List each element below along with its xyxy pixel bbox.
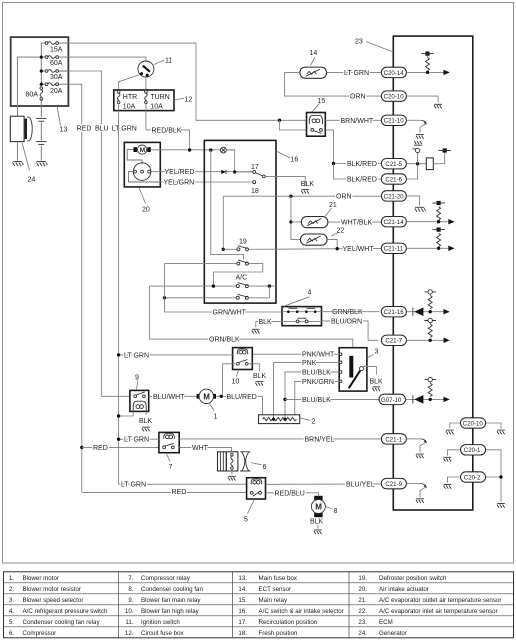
svg-text:19.: 19. — [358, 575, 367, 582]
svg-text:A/C switch & air intake select: A/C switch & air intake selector — [259, 608, 344, 615]
wire: LT GRN bus from HTR fuse — [119, 103, 247, 484]
svg-text:10.: 10. — [125, 608, 134, 615]
legend entry 1 — [9, 575, 59, 582]
node: high relay tap — [220, 395, 223, 398]
label 20 — [139, 188, 150, 214]
svg-text:A/C refrigerant pressure switc: A/C refrigerant pressure switch — [23, 608, 108, 615]
svg-text:C21-10: C21-10 — [384, 118, 405, 125]
wire: ignition to TURN fuse — [145, 77, 147, 91]
recirculation switch 17 — [251, 164, 265, 178]
battery — [36, 99, 47, 166]
svg-text:BRN/WHT: BRN/WHT — [341, 118, 374, 125]
wire: BLU/WHT to blower motor — [149, 395, 199, 397]
legend entry 8 — [128, 586, 203, 593]
svg-text:G07-10: G07-10 — [381, 397, 402, 404]
label 4 — [284, 290, 312, 307]
connector C21-5 — [381, 159, 406, 169]
svg-text:12: 12 — [185, 96, 193, 103]
svg-text:BLK/RED: BLK/RED — [347, 177, 377, 184]
generator 24 — [10, 116, 32, 166]
ground: compressor — [228, 471, 236, 481]
svg-text:Fresh position: Fresh position — [259, 630, 298, 637]
circuit fuse box 12 — [114, 90, 174, 111]
svg-text:10A: 10A — [123, 103, 136, 110]
svg-text:Blower motor resistor: Blower motor resistor — [23, 586, 81, 593]
ECM circuit at C21-5/C21-6 — [406, 141, 451, 170]
compressor 6 — [218, 452, 251, 471]
node: relay 15 input branch — [278, 119, 307, 130]
connector C21-10 — [381, 115, 406, 125]
svg-text:BLU/ORN: BLU/ORN — [331, 318, 362, 325]
svg-text:LT GRN: LT GRN — [344, 70, 369, 77]
svg-text:17: 17 — [251, 164, 259, 171]
wire: A/C lower left to GRN/WHT net — [165, 297, 237, 299]
fuse 20A — [45, 83, 63, 95]
blower fan high relay 10 — [233, 348, 253, 370]
fuse 30A — [45, 70, 63, 81]
wire: A/C lower right — [248, 297, 269, 299]
svg-text:Main relay: Main relay — [259, 597, 288, 604]
wire: WHT to compressor — [179, 447, 231, 451]
svg-text:BLU: BLU — [95, 125, 109, 132]
svg-text:6: 6 — [263, 464, 267, 471]
svg-text:Defroster position switch: Defroster position switch — [379, 575, 447, 582]
svg-text:LT GRN: LT GRN — [124, 352, 149, 359]
wire: GRN/WHT run to pressure switch — [165, 264, 283, 312]
wire: 15A feed to main relay — [68, 43, 306, 120]
svg-text:Blower fan main relay: Blower fan main relay — [141, 597, 201, 604]
blower motor resistor 2 — [259, 415, 300, 424]
svg-text:A/C evaporator inlet air tempe: A/C evaporator inlet air temperature sen… — [379, 608, 498, 615]
svg-text:C21-1: C21-1 — [385, 436, 402, 443]
svg-text:PNK: PNK — [302, 360, 317, 367]
legend entry 5 — [9, 619, 101, 626]
node: YEL/RED junction — [233, 170, 236, 173]
svg-text:RED: RED — [77, 125, 92, 132]
svg-text:1: 1 — [214, 413, 218, 420]
label 23 — [355, 39, 392, 52]
label 3 — [368, 349, 379, 358]
node: LT GRN tap relay 7 — [117, 438, 120, 441]
svg-text:GRN/BLK: GRN/BLK — [332, 309, 363, 316]
ECM input at G07-10 — [406, 377, 450, 403]
A/C refrigerant pressure switch 4 — [256, 307, 322, 326]
svg-text:C21-5: C21-5 — [385, 161, 402, 168]
legend entry 6 — [9, 630, 56, 637]
svg-text:C21-9: C21-9 — [385, 481, 402, 488]
svg-text:Condenser cooling fan relay: Condenser cooling fan relay — [23, 619, 101, 626]
connector C21-6 — [381, 174, 406, 184]
svg-text:BLU/YEL: BLU/YEL — [346, 481, 375, 488]
node: A/C left — [212, 284, 215, 287]
wire: relay 9 coil to BLK ground — [139, 411, 153, 431]
svg-text:C21-11: C21-11 — [384, 246, 404, 253]
label 12 — [174, 96, 192, 103]
legend entry 21 — [358, 597, 501, 604]
legend entry 18 — [238, 630, 298, 637]
ECM input at C21-16 — [406, 290, 449, 316]
svg-text:BLK: BLK — [139, 418, 153, 425]
svg-text:BLK: BLK — [253, 373, 267, 380]
wire: 30A BLU bus — [68, 71, 129, 396]
node: BLK/RED branch — [332, 162, 382, 179]
svg-text:Main fuse box: Main fuse box — [259, 575, 298, 582]
svg-text:8.: 8. — [128, 586, 133, 593]
junction dots in fuse box — [40, 56, 43, 59]
blower fan main relay 9 — [130, 390, 149, 411]
ignition switch 11 — [138, 61, 154, 77]
svg-text:PNK/GRN: PNK/GRN — [302, 379, 334, 386]
svg-text:5: 5 — [244, 516, 248, 523]
svg-text:LT GRN: LT GRN — [121, 482, 146, 489]
wire: PNK/GRN — [295, 381, 339, 415]
svg-text:C21-14: C21-14 — [384, 219, 405, 226]
svg-text:YEL/WHT: YEL/WHT — [343, 246, 375, 253]
wire: defroster switch to YEL/WHT line — [249, 247, 382, 250]
label 2 — [300, 418, 316, 426]
main fuse box 13 — [11, 37, 69, 106]
legend table lines — [4, 572, 514, 638]
svg-text:22: 22 — [337, 227, 345, 234]
legend entry 9 — [128, 597, 201, 604]
wire: RED/BLK from TURN fuse — [146, 103, 190, 150]
fuse 15A — [45, 42, 63, 54]
svg-text:RED/BLU: RED/BLU — [275, 490, 305, 497]
svg-text:3.: 3. — [9, 597, 14, 604]
wire: relay 9 coil to LT GRN bus — [119, 411, 134, 416]
label 10 — [232, 370, 240, 386]
wire: ignition to HTR fuse — [119, 75, 140, 91]
svg-text:LT GRN: LT GRN — [124, 437, 149, 444]
svg-text:M: M — [315, 503, 322, 512]
label 7 — [166, 453, 173, 471]
label 15 — [312, 98, 325, 112]
label 14 — [310, 50, 318, 65]
svg-text:WHT/BLK: WHT/BLK — [341, 219, 372, 226]
ECT sensor 14 — [285, 67, 382, 96]
svg-text:23: 23 — [355, 39, 363, 46]
label 24 — [22, 143, 35, 184]
wire: 60A to ignition switch — [68, 57, 146, 61]
svg-text:30A: 30A — [50, 74, 63, 81]
svg-text:BLU/WHT: BLU/WHT — [153, 394, 185, 401]
wire: selector switch left to GRN/WHT bus — [165, 263, 237, 265]
svg-text:RED: RED — [93, 445, 108, 452]
svg-text:24.: 24. — [358, 630, 367, 637]
ECM ground at C20-10 — [406, 96, 442, 108]
ECM power connector C20-2 — [444, 472, 505, 508]
svg-text:BLK: BLK — [259, 319, 273, 326]
svg-text:C20-1: C20-1 — [464, 447, 481, 454]
compressor relay 7 — [159, 432, 179, 452]
node: RED bus to compressor relay — [80, 446, 159, 449]
svg-text:YEL/GRN: YEL/GRN — [164, 180, 195, 187]
wire: 60A left branch to generator — [17, 57, 41, 116]
legend entry 17 — [238, 619, 317, 626]
legend entry 16 — [238, 608, 343, 615]
svg-text:Ignition switch: Ignition switch — [141, 619, 180, 626]
label 11 — [154, 57, 172, 64]
condenser cooling fan relay 5 — [247, 478, 266, 499]
svg-text:Compressor relay: Compressor relay — [141, 575, 191, 582]
svg-text:GRN/WHT: GRN/WHT — [213, 310, 247, 317]
legend entry 15 — [238, 597, 288, 604]
wire: ORN source line — [223, 195, 381, 197]
node: LT GRN tap relay 10 — [117, 353, 120, 356]
legend entry 12 — [125, 630, 185, 637]
ground BLK for switch 17 — [301, 181, 315, 194]
svg-text:Blower fan high relay: Blower fan high relay — [141, 608, 200, 615]
ground: condenser fan BLK — [310, 518, 324, 534]
svg-text:4.: 4. — [9, 608, 14, 615]
svg-text:11.: 11. — [125, 619, 133, 626]
actuator selector — [127, 150, 160, 182]
svg-text:ORN: ORN — [350, 94, 366, 101]
svg-text:M: M — [140, 147, 145, 154]
A/C switch lower pole — [236, 294, 248, 299]
svg-text:C20-10: C20-10 — [384, 94, 405, 101]
svg-text:ECM: ECM — [379, 619, 393, 626]
blower speed selector 3 — [339, 348, 367, 391]
legend entry 20 — [358, 586, 428, 593]
svg-text:14.: 14. — [238, 586, 247, 593]
svg-text:Air intake actuator: Air intake actuator — [379, 586, 429, 593]
ECM link C21-6 — [406, 166, 417, 180]
legend entry 22 — [358, 608, 497, 615]
svg-text:10: 10 — [232, 379, 240, 386]
wire to defroster switch — [223, 248, 237, 250]
svg-text:Generator: Generator — [379, 630, 407, 637]
indicator lamp in panel — [209, 147, 235, 172]
svg-text:15.: 15. — [238, 597, 247, 604]
label 9 — [135, 374, 139, 390]
svg-text:9.: 9. — [128, 597, 133, 604]
svg-text:15: 15 — [318, 98, 326, 105]
svg-text:20A: 20A — [50, 88, 63, 95]
svg-text:18.: 18. — [238, 630, 247, 637]
svg-text:ORN: ORN — [336, 194, 352, 201]
air intake actuator 20 — [124, 142, 160, 187]
svg-text:BLU/BLK: BLU/BLK — [302, 397, 331, 404]
legend entry 7 — [128, 575, 190, 582]
fresh position contact 18 — [251, 181, 259, 195]
wire: lamp branch down to A/C switch — [211, 150, 244, 259]
svg-text:21.: 21. — [358, 597, 367, 604]
connector C21-9 — [381, 478, 406, 488]
main relay 15 — [307, 113, 326, 137]
blower motor 1 — [197, 389, 216, 403]
svg-text:9: 9 — [135, 374, 139, 381]
wire: high relay switch to motor node — [223, 364, 237, 395]
wire: main relay coil out BRN/WHT — [325, 119, 381, 121]
ECM driver at C21-1 — [406, 439, 427, 458]
wire: high relay switch to BLK ground — [248, 364, 266, 386]
svg-text:15A: 15A — [50, 46, 63, 53]
svg-text:BLK/RED: BLK/RED — [347, 161, 377, 168]
label 16 — [277, 152, 298, 164]
label 6 — [251, 463, 267, 471]
svg-text:16: 16 — [291, 157, 299, 164]
fuse HTR 10A — [117, 90, 137, 110]
connector C20-10 — [381, 91, 406, 101]
svg-text:80A: 80A — [26, 92, 39, 99]
svg-text:3: 3 — [375, 349, 379, 356]
svg-text:7: 7 — [169, 464, 173, 471]
legend entry 23 — [358, 619, 392, 626]
wire: 20A RED bus — [68, 84, 81, 492]
ECM input at C21-7 — [406, 318, 449, 343]
svg-text:14: 14 — [310, 50, 318, 57]
motor M in actuator — [133, 145, 150, 154]
wire: BLU/YEL coil to ECM — [266, 483, 382, 485]
wire: link to recirculation switch — [236, 171, 252, 173]
svg-text:HTR: HTR — [123, 94, 137, 101]
svg-text:Compressor: Compressor — [23, 630, 57, 637]
svg-text:Circuit fuse box: Circuit fuse box — [141, 630, 185, 637]
node: BLU/BLK to ECM tap — [283, 398, 379, 401]
svg-text:2.: 2. — [9, 586, 14, 593]
svg-text:21: 21 — [329, 202, 337, 209]
svg-text:C20-14: C20-14 — [384, 70, 405, 77]
condenser cooling fan 8 — [311, 496, 325, 517]
wire: YEL/RED to A/C panel — [151, 171, 253, 173]
node: outlet sensor tap — [289, 220, 302, 223]
ECM driver at C21-9 — [406, 484, 427, 503]
svg-text:19: 19 — [239, 238, 247, 245]
wire: BLK to ground from pressure switch — [252, 319, 272, 334]
svg-text:C20-10: C20-10 — [463, 420, 484, 427]
A/C evaporator inlet air temperature sensor 22 — [301, 234, 338, 249]
wire: selector BLK ground — [362, 367, 384, 392]
wire: BLU/ORN to ECM — [322, 321, 379, 340]
legend entry 11 — [125, 619, 180, 626]
svg-text:8: 8 — [334, 508, 338, 515]
fuse TURN 10A — [145, 90, 170, 110]
svg-text:11: 11 — [165, 57, 172, 64]
label 13 — [57, 106, 67, 133]
connector C21-1 — [381, 434, 406, 444]
wire: fuse box internal bus — [41, 43, 68, 88]
svg-text:C21-20: C21-20 — [384, 193, 405, 200]
svg-text:1.: 1. — [9, 575, 14, 582]
svg-text:C21-6: C21-6 — [385, 176, 402, 183]
svg-text:BLK: BLK — [370, 378, 384, 385]
legend entry 10 — [125, 608, 200, 615]
svg-text:2: 2 — [312, 418, 316, 425]
wire: main relay switch out to BLK/RED — [325, 130, 381, 164]
legend entry 19 — [358, 575, 447, 582]
wire: BLU/RED to resistor — [216, 396, 263, 415]
wire: BRN/YEL coil to ECM — [179, 438, 381, 440]
svg-text:Condenser cooling fan: Condenser cooling fan — [141, 586, 203, 593]
wire: selector switch S-path to A/C node — [213, 264, 262, 287]
svg-text:PNK/WHT: PNK/WHT — [302, 352, 335, 359]
svg-text:C21-7: C21-7 — [385, 338, 402, 345]
node: GRN/WHT tie — [163, 296, 166, 299]
wire: PNK/WHT — [252, 353, 339, 355]
wire: GRN/BLK to ECM — [322, 311, 380, 313]
legend table frame — [4, 572, 514, 638]
connector C21-16 — [381, 307, 406, 317]
ECM pullup at C21-11 — [406, 228, 454, 252]
svg-text:Recirculation position: Recirculation position — [259, 619, 318, 626]
svg-text:RED/BLK: RED/BLK — [152, 127, 182, 134]
wire: LT GRN to compressor relay coil — [119, 438, 159, 440]
legend entry 4 — [9, 608, 108, 615]
ECM 23 — [393, 36, 473, 510]
label 1 — [210, 404, 218, 421]
svg-text:RED: RED — [172, 489, 187, 496]
label 22 — [331, 227, 344, 236]
ECM power connector C20-10 right — [446, 418, 505, 435]
svg-text:ECT sensor: ECT sensor — [259, 586, 292, 593]
wire: actuator motor supply line — [151, 149, 235, 151]
defroster position switch 19 — [237, 238, 249, 251]
svg-text:60A: 60A — [50, 60, 63, 67]
wire: ORN down to defroster switch — [222, 196, 224, 249]
ECM driver at C21-10 — [406, 120, 427, 138]
node: RED/BLK junction — [188, 148, 191, 151]
label 5 — [244, 499, 255, 523]
node: A/C right tie — [268, 284, 271, 297]
connector C21-7 — [381, 335, 406, 345]
svg-text:10A: 10A — [150, 103, 163, 110]
label 21 — [326, 202, 337, 216]
legend entry 14 — [238, 586, 291, 593]
svg-text:M: M — [203, 392, 210, 401]
legend entry 13 — [238, 575, 298, 582]
svg-text:TURN: TURN — [150, 94, 169, 101]
svg-text:18: 18 — [251, 188, 259, 195]
node: defroster feed — [222, 248, 225, 251]
svg-text:16.: 16. — [238, 608, 247, 615]
svg-text:24: 24 — [28, 177, 36, 184]
svg-text:A/C evaporator outlet air temp: A/C evaporator outlet air temperature se… — [379, 597, 501, 604]
ECM pullup at C21-14 — [406, 201, 454, 225]
air intake selector switch — [237, 260, 249, 265]
connector C21-11 — [381, 243, 406, 253]
svg-text:Blower motor: Blower motor — [23, 575, 59, 582]
connector C21-14 — [381, 217, 406, 227]
svg-text:BLK: BLK — [301, 181, 315, 188]
wire: RED bottom run to relay 5 — [82, 491, 247, 493]
node: YEL/WHT junction — [336, 247, 339, 250]
svg-text:5.: 5. — [9, 619, 14, 626]
svg-text:Blower speed selector: Blower speed selector — [23, 597, 84, 604]
legend entry 3 — [9, 597, 84, 604]
legend entry 24 — [358, 630, 406, 637]
wire: LT GRN to high relay coil — [119, 354, 233, 356]
connector C20-14 — [381, 67, 406, 77]
svg-text:20.: 20. — [358, 586, 367, 593]
wire: PNK — [274, 362, 340, 419]
svg-text:BRN/YEL: BRN/YEL — [305, 436, 335, 443]
wire: A/C upper line — [150, 285, 237, 287]
svg-text:A/C: A/C — [236, 275, 248, 282]
svg-text:12.: 12. — [125, 630, 134, 637]
A/C switch upper pole — [236, 275, 249, 288]
svg-text:BLU/BLK: BLU/BLK — [302, 369, 331, 376]
svg-text:C21-16: C21-16 — [384, 309, 405, 316]
svg-text:13: 13 — [60, 127, 68, 134]
A/C switch and air intake selector 16 — [204, 140, 276, 303]
wire: RED/BLU to condenser fan — [266, 493, 319, 496]
node: sensor feed from ORN — [289, 195, 301, 240]
svg-text:20: 20 — [142, 207, 150, 214]
wire: switch 17 to ground — [265, 176, 305, 186]
svg-text:BLU/RED: BLU/RED — [227, 394, 257, 401]
bus labels RED BLU LT GRN — [77, 125, 137, 132]
